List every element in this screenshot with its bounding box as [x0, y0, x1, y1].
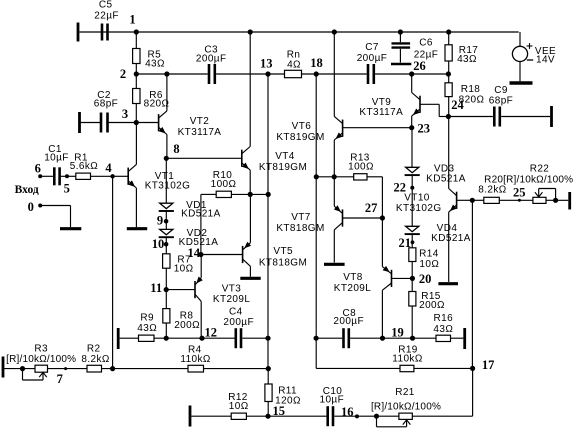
- power source VEE 14V: [512, 43, 556, 65]
- wire node10 to R7: [165, 244, 167, 254]
- node 10: [152, 237, 169, 251]
- wire VT3 base from node11: [166, 289, 195, 291]
- terminal R3 left: [2, 357, 5, 378]
- junction node4 line y368: [110, 366, 115, 371]
- node 14: [187, 246, 203, 260]
- capacitor C3: [196, 45, 227, 85]
- svg-text:KT3117A: KT3117A: [359, 107, 403, 118]
- junction node13 line y338: [265, 336, 270, 341]
- transistor VT6 KT819GM: [276, 116, 342, 143]
- svg-text:KT209L: KT209L: [213, 294, 250, 305]
- node 13: [260, 57, 273, 77]
- wire node6 to C1: [40, 175, 53, 177]
- wire node24 down to VT10: [448, 117, 450, 189]
- svg-text:KT209L: KT209L: [334, 283, 371, 294]
- transistor VT1 KT3102G: [128, 164, 190, 191]
- terminal R9 left: [117, 328, 120, 349]
- wire VD2 to node10: [165, 237, 167, 244]
- svg-text:200µF: 200µF: [333, 316, 364, 327]
- wire node18 vertical: [315, 74, 317, 368]
- wire VT3 emitter up to node14: [200, 255, 202, 278]
- wire R15 down to rail: [411, 306, 413, 338]
- svg-text:Вход: Вход: [15, 184, 39, 196]
- terminal R22 right: [568, 192, 571, 210]
- svg-text:110kΩ: 110kΩ: [392, 354, 423, 365]
- wire node14 to VT5 base: [201, 254, 243, 256]
- svg-text:43Ω: 43Ω: [433, 324, 453, 335]
- wire VT6 base to node23: [343, 127, 412, 129]
- ground VT7: [324, 263, 345, 266]
- svg-text:[R]/10kΩ/100%: [R]/10kΩ/100%: [6, 354, 76, 365]
- svg-text:19: 19: [391, 326, 404, 340]
- svg-text:24: 24: [451, 98, 464, 112]
- junction right output node: [332, 174, 337, 179]
- wire R13 row: [316, 176, 382, 178]
- transistor VT9 KT3117A: [359, 93, 420, 119]
- node 23: [409, 121, 430, 135]
- svg-text:200Ω: 200Ω: [419, 300, 445, 311]
- wire rail to R17: [448, 32, 450, 74]
- capacitor C2: [94, 90, 118, 133]
- capacitor C4: [223, 306, 254, 348]
- svg-text:C6: C6: [419, 38, 433, 49]
- svg-text:100Ω: 100Ω: [211, 179, 237, 190]
- svg-text:20: 20: [419, 272, 432, 286]
- transistor VT7 KT818GM: [276, 205, 342, 234]
- wire C9 to terminal: [501, 116, 550, 118]
- potentiometer R22: [530, 164, 550, 204]
- junction VT4-VT5 emitters: [248, 192, 253, 197]
- wire node25 row: [472, 199, 568, 201]
- svg-text:200Ω: 200Ω: [174, 320, 200, 331]
- node 16: [341, 405, 359, 419]
- junction top rail / C6: [398, 29, 403, 34]
- svg-text:VT6: VT6: [292, 121, 312, 132]
- wire node22 to VD4: [411, 188, 413, 227]
- svg-text:18: 18: [310, 56, 323, 70]
- svg-text:10Ω: 10Ω: [229, 401, 249, 412]
- wire node23 to VD3: [411, 128, 413, 168]
- resistor R20: [478, 175, 573, 204]
- capacitor C9: [489, 85, 513, 127]
- svg-text:10Ω: 10Ω: [419, 259, 439, 270]
- junction node18 line y176: [314, 174, 319, 179]
- node 6: [35, 161, 43, 178]
- node 0: [28, 200, 43, 214]
- ground node0: [60, 227, 81, 230]
- svg-text:3: 3: [122, 107, 128, 121]
- wire C8 row: [316, 337, 463, 339]
- node 9: [157, 214, 169, 228]
- wire VT2 collector up: [166, 74, 168, 111]
- svg-text:KD521A: KD521A: [426, 174, 466, 185]
- wire VD4 to node21: [411, 234, 413, 242]
- resistor R16: [433, 313, 453, 342]
- wire VT7 collector to ground: [333, 230, 335, 263]
- node 19: [380, 326, 404, 341]
- svg-text:22µF: 22µF: [94, 11, 119, 22]
- capacitor C8: [333, 308, 364, 348]
- wire C1 to node5: [61, 175, 76, 177]
- wire VT9 emitter down to node23: [411, 116, 413, 128]
- svg-text:R18: R18: [461, 84, 481, 95]
- wire VD3 to node22: [411, 175, 413, 188]
- wire VT2 base: [136, 122, 158, 124]
- terminal R16 right: [463, 328, 466, 349]
- svg-text:VT5: VT5: [273, 246, 293, 257]
- wire node4 down rail: [112, 176, 114, 368]
- resistor R19: [392, 345, 423, 372]
- wire node1 to R5 to node2: [135, 32, 137, 74]
- node 12: [199, 326, 217, 341]
- wiper R22: [535, 189, 556, 201]
- node 24: [446, 98, 465, 119]
- svg-text:R22: R22: [530, 164, 550, 175]
- transistor VT4 KT819GM: [242, 147, 307, 174]
- node 2: [120, 67, 139, 81]
- svg-text:VT7: VT7: [291, 212, 311, 223]
- node 21: [398, 236, 414, 250]
- resistor R2: [81, 344, 110, 373]
- wire VT7 base to node27: [343, 217, 383, 219]
- svg-text:9: 9: [157, 214, 163, 228]
- svg-text:7: 7: [57, 372, 63, 386]
- wire VEE to ground: [519, 62, 521, 82]
- svg-text:4: 4: [105, 161, 112, 175]
- capacitor C6: [392, 32, 439, 63]
- resistor R7: [163, 254, 194, 275]
- svg-text:[R]/10kΩ/100%: [R]/10kΩ/100%: [371, 402, 441, 413]
- ground VT1: [127, 227, 147, 230]
- wire VT10 emitter to ground: [448, 212, 450, 282]
- resistor R9: [137, 313, 157, 342]
- svg-text:820Ω: 820Ω: [144, 98, 170, 109]
- resistor R15: [409, 291, 445, 311]
- wire VT6 collector up to rail: [333, 32, 335, 116]
- junction R17 bottom: [446, 71, 451, 76]
- resistor Rn: [285, 49, 302, 77]
- svg-text:14V: 14V: [536, 55, 555, 66]
- ground C6: [391, 63, 411, 66]
- svg-text:R3: R3: [34, 344, 48, 355]
- node 26: [409, 59, 426, 77]
- ground VT10: [438, 282, 458, 285]
- wire R9 row: [120, 337, 268, 339]
- svg-text:12: 12: [204, 326, 217, 340]
- resistor R11: [265, 384, 301, 407]
- terminal R12 left: [189, 406, 192, 427]
- svg-text:C5: C5: [99, 0, 113, 11]
- capacitor C10: [320, 386, 345, 426]
- wire VT6 emitter down to VT7: [333, 140, 335, 206]
- svg-text:10µF: 10µF: [320, 395, 345, 406]
- svg-text:16: 16: [341, 405, 354, 419]
- svg-text:68pF: 68pF: [489, 96, 513, 107]
- wire R1 to node4: [91, 175, 113, 177]
- svg-text:8.2kΩ: 8.2kΩ: [478, 185, 507, 196]
- junction R11 top: [266, 366, 271, 371]
- wire node21 to R14: [411, 242, 413, 248]
- wire node2 to R6 to node3: [135, 74, 137, 123]
- node 20: [410, 272, 432, 286]
- node 8: [164, 142, 180, 161]
- svg-text:R16: R16: [434, 313, 454, 324]
- terminal C5 left: [77, 23, 80, 42]
- svg-text:KT818GM: KT818GM: [276, 223, 324, 234]
- junction top rail / VT4 collector: [248, 29, 253, 34]
- svg-text:VT3: VT3: [222, 284, 242, 295]
- svg-text:KT3102G: KT3102G: [396, 203, 442, 214]
- wire VT10 base to node25 row: [457, 199, 473, 201]
- svg-text:KT819GM: KT819GM: [259, 162, 307, 173]
- svg-text:11: 11: [150, 281, 162, 295]
- node 27: [365, 201, 385, 220]
- wire node8 to VT4 base: [166, 157, 242, 159]
- svg-text:KT3102G: KT3102G: [145, 181, 191, 192]
- label Вход: [15, 184, 39, 196]
- junction R22 right: [553, 198, 558, 203]
- svg-text:43Ω: 43Ω: [145, 58, 165, 69]
- svg-text:14: 14: [187, 246, 200, 260]
- junction VT2 collector on node2 row: [164, 71, 169, 76]
- diode VD3 KD521A: [405, 163, 466, 184]
- wire R10 to output junctions: [231, 193, 268, 195]
- diode VD1 KD521A: [159, 200, 221, 220]
- wire R14 to node20: [411, 262, 413, 279]
- svg-text:R14: R14: [419, 249, 439, 260]
- wire VT1 emitter to ground: [135, 188, 137, 227]
- wire R7 to node11: [165, 268, 167, 289]
- junction top rail / VT6 collector: [332, 29, 337, 34]
- capacitor C5: [94, 0, 119, 41]
- wire node9 to VD2: [165, 221, 167, 229]
- junction node13 line y194: [266, 192, 271, 197]
- svg-text:25: 25: [513, 186, 526, 200]
- svg-text:C7: C7: [365, 42, 379, 53]
- transistor VT8 KT209L: [334, 266, 392, 294]
- svg-text:2: 2: [120, 67, 126, 81]
- wire VT1 base: [113, 175, 129, 177]
- wire VT8 emitter up to node27: [381, 218, 383, 267]
- node 18: [310, 56, 323, 77]
- wire VT4 emitter down: [249, 170, 251, 194]
- wire VT3 collector down to node12: [200, 301, 202, 338]
- wire node14 up to R10: [201, 194, 216, 254]
- svg-text:100Ω: 100Ω: [348, 162, 374, 173]
- resistor R8: [163, 309, 200, 331]
- resistor R18: [445, 83, 485, 106]
- svg-text:R21: R21: [395, 387, 415, 398]
- node 25: [513, 186, 526, 202]
- node 1: [129, 13, 139, 35]
- svg-text:8: 8: [173, 142, 179, 156]
- wire VT8 collector down to rail: [381, 290, 383, 338]
- junction R3 wiper: [20, 366, 25, 371]
- svg-text:17: 17: [482, 358, 495, 372]
- node 4: [105, 161, 114, 179]
- wire C2 to node3: [81, 122, 137, 124]
- svg-text:23: 23: [418, 121, 431, 135]
- resistor R17: [445, 45, 478, 65]
- svg-text:110kΩ: 110kΩ: [180, 354, 211, 365]
- wire node17 vertical: [471, 200, 473, 416]
- wire node3 down to VT1 collector: [135, 123, 137, 165]
- svg-text:4Ω: 4Ω: [287, 60, 301, 71]
- junction top rail / R17: [446, 29, 451, 34]
- svg-text:R2: R2: [87, 344, 101, 355]
- svg-text:5: 5: [64, 181, 70, 195]
- junction R15 bottom rail: [410, 336, 415, 341]
- svg-text:10: 10: [152, 237, 165, 251]
- svg-text:8.2kΩ: 8.2kΩ: [81, 354, 110, 365]
- wire top supply rail: [79, 32, 520, 46]
- svg-text:KT3117A: KT3117A: [178, 127, 222, 138]
- svg-text:VT2: VT2: [190, 116, 210, 127]
- wire R11 column: [267, 338, 269, 416]
- node 11: [150, 281, 169, 295]
- wire R13 corner down to node27: [381, 177, 383, 218]
- svg-text:15: 15: [272, 404, 285, 418]
- wire R8 down to rail: [165, 323, 167, 338]
- diode VD4 KD521A: [405, 223, 471, 244]
- diode VD2 KD521A: [159, 228, 219, 248]
- junction R21 wiper: [374, 414, 379, 419]
- svg-text:22µF: 22µF: [414, 50, 439, 61]
- svg-text:26: 26: [413, 59, 426, 73]
- svg-text:VT4: VT4: [275, 151, 295, 162]
- wire bottom rail: [191, 415, 472, 417]
- wire node26 down to VT9 collector: [411, 74, 413, 93]
- svg-text:C4: C4: [229, 306, 243, 317]
- svg-text:10Ω: 10Ω: [174, 264, 194, 275]
- resistor R13: [348, 153, 374, 181]
- svg-text:68pF: 68pF: [94, 99, 118, 110]
- node 15: [265, 404, 285, 419]
- node 7: [57, 367, 68, 386]
- svg-text:6: 6: [35, 161, 41, 175]
- svg-text:27: 27: [365, 201, 378, 215]
- wire VT2 emitter down to node8: [166, 135, 168, 159]
- wire node24 row to C9: [448, 116, 493, 118]
- svg-text:KT819GM: KT819GM: [276, 132, 324, 143]
- node 5: [64, 174, 70, 195]
- ground VEE: [510, 81, 533, 85]
- wire R19 rail: [316, 367, 472, 369]
- svg-text:43Ω: 43Ω: [137, 323, 157, 334]
- transistor VT3 KT209L: [195, 277, 250, 306]
- terminal C2 left: [78, 112, 81, 133]
- wire VT5 emitter up: [249, 194, 251, 242]
- resistor R6: [133, 89, 170, 110]
- wire VD1 to node9: [165, 211, 167, 221]
- svg-text:VT10: VT10: [404, 192, 430, 203]
- junction node18 line y338: [314, 336, 319, 341]
- wire VT9 base to node24: [420, 104, 448, 116]
- svg-text:200µF: 200µF: [196, 54, 227, 65]
- node 17: [470, 358, 494, 372]
- svg-text:1: 1: [129, 13, 135, 27]
- svg-text:13: 13: [260, 57, 273, 71]
- node 22: [393, 181, 414, 195]
- svg-text:10µF: 10µF: [44, 153, 69, 164]
- svg-text:5.6kΩ: 5.6kΩ: [70, 161, 99, 172]
- svg-text:200µF: 200µF: [223, 317, 254, 328]
- junction R8 bottom: [164, 336, 169, 341]
- svg-text:0: 0: [28, 200, 34, 214]
- node 3: [122, 107, 139, 125]
- wire R3 R2 R4 rail: [4, 368, 268, 370]
- resistor R10: [211, 170, 237, 198]
- potentiometer R21: [371, 387, 441, 419]
- wire node8 down to VD1: [165, 158, 167, 203]
- svg-text:C9: C9: [494, 85, 508, 96]
- svg-text:KD521A: KD521A: [431, 233, 471, 244]
- terminal C9 right: [550, 106, 553, 127]
- wire VT5 collector to ground: [249, 266, 251, 276]
- svg-text:VT8: VT8: [343, 272, 363, 283]
- svg-text:KT818GM: KT818GM: [259, 257, 307, 268]
- wire node2 row: [136, 73, 448, 75]
- transistor VT5 KT818GM: [243, 242, 308, 269]
- junction node25 row / node17 line: [470, 198, 475, 203]
- wire node11 to R8: [165, 290, 167, 309]
- capacitor C7: [357, 42, 388, 84]
- wire VT8 base to node20: [392, 277, 413, 279]
- transistor VT2 KT3117A: [159, 111, 222, 138]
- wiper R21: [377, 416, 411, 427]
- svg-text:200µF: 200µF: [357, 53, 388, 64]
- ground VT5: [240, 277, 260, 280]
- wire node20 to R15: [411, 278, 413, 291]
- resistor R4: [180, 345, 211, 372]
- wire node0 to ground: [40, 206, 70, 228]
- resistor R5: [133, 49, 165, 70]
- potentiometer R3: [6, 344, 76, 373]
- capacitor C1: [44, 144, 69, 185]
- resistor R1: [70, 153, 99, 180]
- resistor R14: [409, 248, 440, 270]
- transistor VT10 KT3102G: [449, 189, 457, 213]
- wiper R3: [23, 369, 47, 380]
- svg-text:43Ω: 43Ω: [457, 54, 477, 65]
- label VT10: [396, 192, 442, 214]
- resistor R12: [228, 392, 248, 419]
- wire R18 column: [448, 74, 450, 117]
- wire node13 vertical: [267, 74, 269, 338]
- wire VT4 collector up to rail: [249, 32, 251, 147]
